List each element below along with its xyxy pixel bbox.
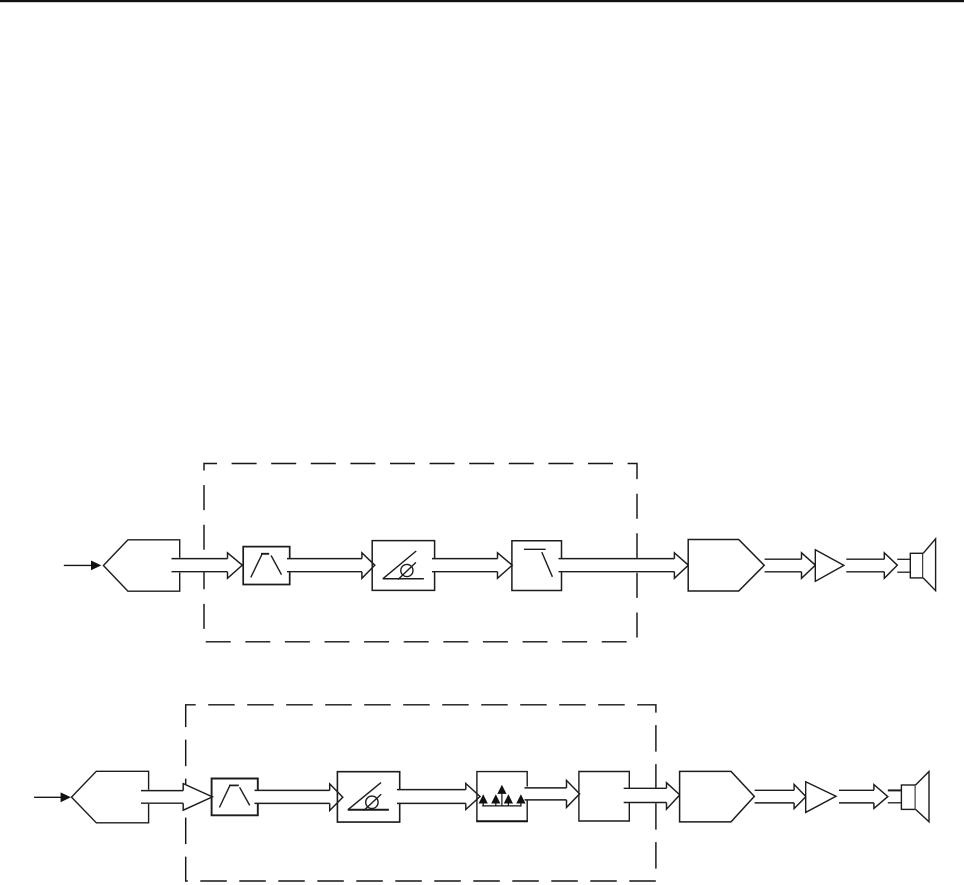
- hold block (row 2): [579, 772, 629, 822]
- output transducer (row1 right pentagon): [688, 540, 764, 592]
- wire: row1 treble-cut block to DAC transducer: [559, 553, 689, 579]
- dashed processing-block frame (row 2): [186, 705, 656, 881]
- wire: row1 input signal line with arrow: [64, 561, 102, 571]
- phase-shift block (row 1): [372, 541, 434, 591]
- phase-shift block (row 2): [337, 772, 399, 822]
- loudspeaker (row 2): [888, 772, 929, 822]
- band-pass response symbol (row 1): [251, 554, 262, 577]
- wire: row2 input signal line with arrow: [34, 792, 71, 802]
- wire: row1 band-pass to phase block: [287, 553, 375, 579]
- sampler block bottom emphasis line: [476, 820, 528, 822]
- dashed processing-block frame (row 1): [204, 464, 637, 642]
- wire: row2 transducer to band-pass block: [141, 784, 212, 811]
- phase-angle symbol (row 2): [348, 809, 389, 811]
- wire: row2 amplifier to loudspeaker: [839, 785, 888, 809]
- wire: row1 DAC transducer to amplifier: [765, 553, 816, 579]
- wire: row2 sampler block to hold block: [525, 780, 580, 807]
- amplifier triangle (row 1): [815, 550, 844, 582]
- top border bar: [0, 0, 964, 2]
- input transducer (row2 left pentagon): [72, 771, 149, 823]
- band-pass filter block (row 2): [212, 779, 258, 816]
- wire: row1 amplifier to loudspeaker: [846, 553, 897, 579]
- phase-angle symbol (row 1): [383, 578, 424, 580]
- wire: row2 hold block to DAC transducer: [624, 783, 680, 810]
- loudspeaker (row 1): [897, 539, 935, 591]
- amplifier triangle (row 2): [806, 782, 836, 813]
- wire: row2 phase block to sampler block: [397, 784, 480, 810]
- treble-cut response symbol (row 1): [524, 548, 546, 550]
- sampling comb symbol (row 2): [482, 805, 521, 807]
- wire: row1 phase block to treble-cut block: [432, 553, 512, 579]
- band-pass response symbol (row 2): [219, 786, 229, 808]
- sampler block with pulse comb (row 2): [477, 772, 527, 822]
- band-pass filter block (row 1): [243, 547, 290, 585]
- wire: row2 band-pass to phase block: [255, 784, 343, 811]
- wire: row2 DAC transducer to amplifier: [755, 784, 806, 808]
- input transducer (row1 left pentagon): [103, 540, 179, 591]
- wire: row1 transducer to band-pass block: [172, 553, 243, 579]
- treble-cut filter block (row 1): [512, 541, 562, 591]
- output transducer (row2 right pentagon): [680, 771, 755, 822]
